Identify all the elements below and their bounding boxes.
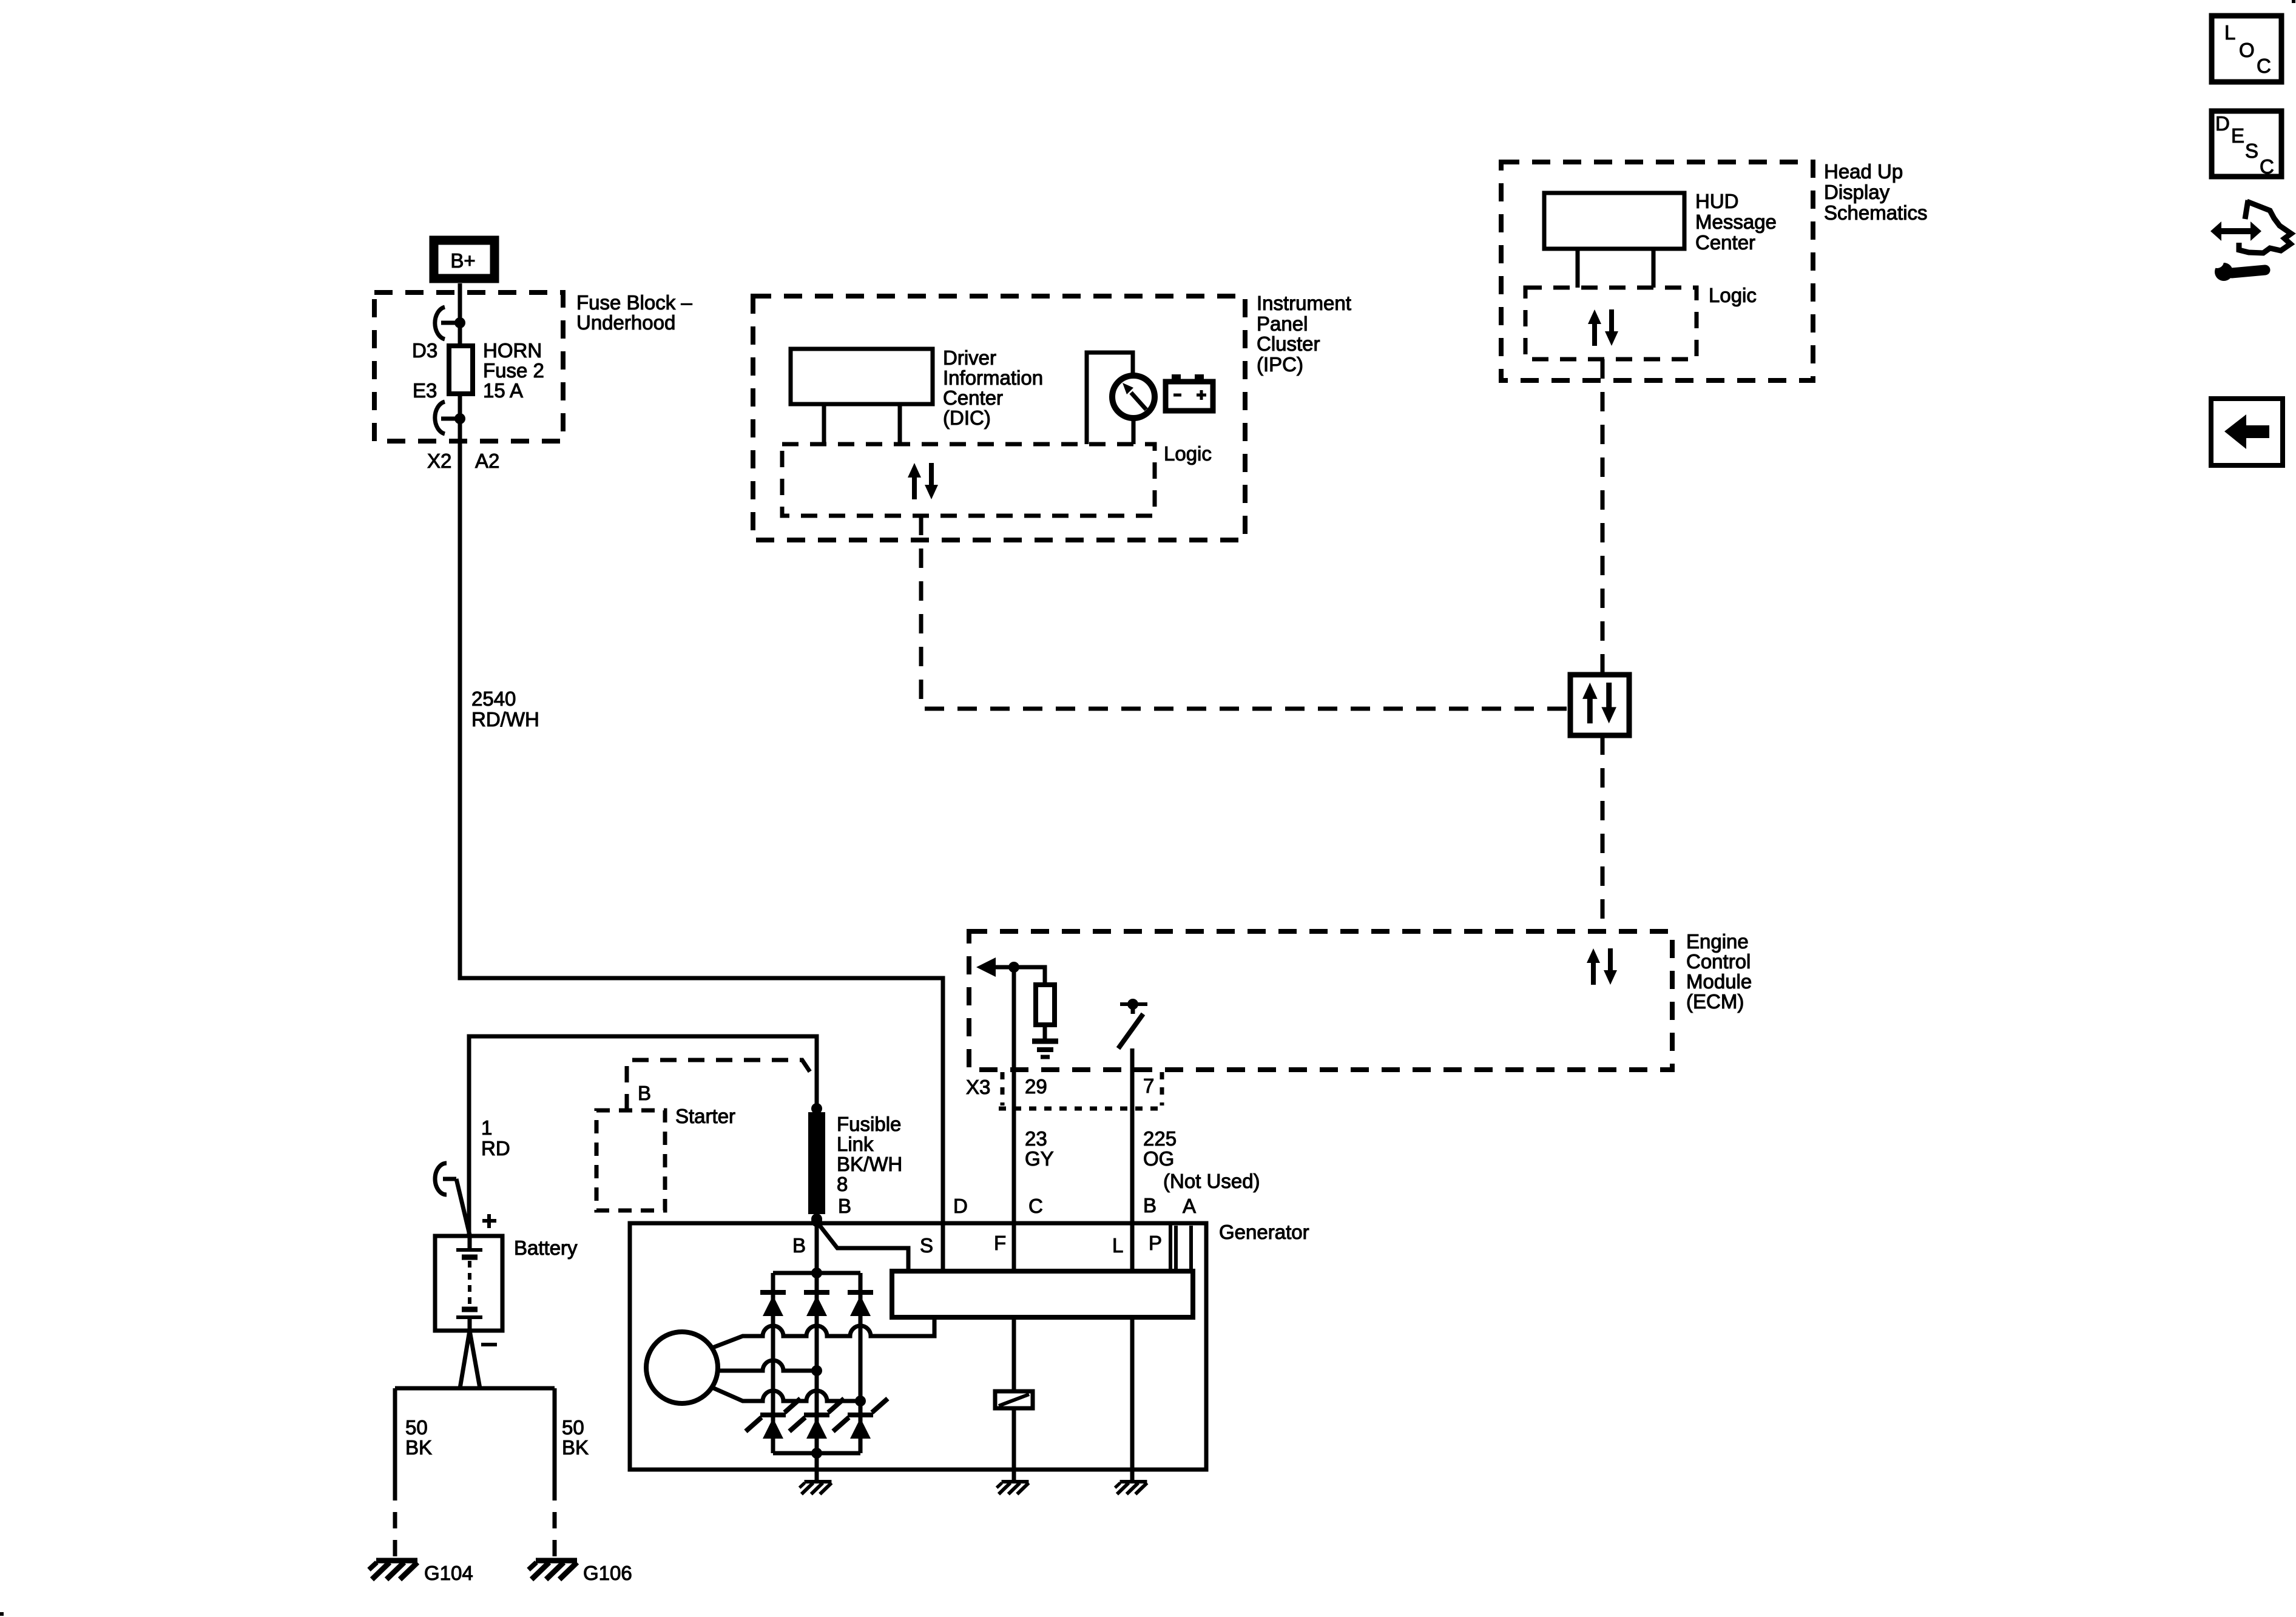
- svg-text:Cluster: Cluster: [1257, 333, 1320, 355]
- svg-text:1: 1: [481, 1116, 492, 1139]
- svg-text:D: D: [2215, 112, 2230, 135]
- starter dashed box: [596, 1110, 665, 1210]
- wire F pin to regulator: [1012, 1223, 1016, 1271]
- svg-text:A: A: [1183, 1195, 1196, 1217]
- ground G106: [528, 1561, 577, 1579]
- svg-text:C: C: [2257, 55, 2271, 77]
- svg-text:Information: Information: [943, 366, 1043, 389]
- wire F below regulator: [1012, 1317, 1016, 1391]
- rectifier top bus: [773, 1271, 860, 1275]
- svg-text:D3: D3: [412, 339, 437, 362]
- terminal E3 connector: [435, 402, 456, 434]
- ground generator field: [997, 1482, 1029, 1494]
- svg-text:B: B: [838, 1195, 851, 1217]
- HUD message center box: [1544, 193, 1684, 249]
- diode positive 1: [760, 1292, 786, 1316]
- driver information center DIC: [791, 349, 933, 404]
- wire 2540 RD/WH fuse to generator S: [460, 394, 943, 1223]
- terminal D3 connector: [435, 307, 456, 339]
- phase wire 1: [771, 1273, 775, 1453]
- zener diode 1: [746, 1399, 800, 1439]
- svg-text:Logic: Logic: [1709, 284, 1757, 306]
- svg-text:(DIC): (DIC): [943, 407, 991, 429]
- fuse block dashed box: [374, 292, 563, 441]
- wire bridge to case ground: [815, 1453, 819, 1482]
- wire ECM internal: [994, 967, 1045, 985]
- dashed serial data wire splice to ECM: [1601, 735, 1605, 931]
- icon back arrow box: [2211, 399, 2283, 465]
- svg-text:L: L: [2224, 21, 2235, 44]
- node pin 29 junction: [1008, 962, 1019, 973]
- ground G104: [369, 1561, 417, 1579]
- svg-text:B: B: [1143, 1194, 1156, 1217]
- stator winding top phase: [711, 1317, 934, 1348]
- svg-text:Fuse 2: Fuse 2: [483, 359, 544, 382]
- resistor pull-down: [1036, 985, 1055, 1025]
- node fuse bottom junction: [454, 413, 465, 424]
- voltmeter gauge wire: [1087, 353, 1133, 444]
- svg-text:B: B: [638, 1082, 651, 1104]
- wire 50 BK right: [553, 1388, 557, 1484]
- svg-text:P: P: [1149, 1232, 1162, 1254]
- svg-text:Driver: Driver: [943, 346, 996, 369]
- svg-text:Fuse Block –: Fuse Block –: [576, 291, 692, 314]
- svg-text:Module: Module: [1686, 970, 1752, 993]
- generator box: [630, 1223, 1206, 1470]
- pin cell divider P left: [1169, 1223, 1172, 1271]
- zener diode 2: [789, 1399, 844, 1439]
- wire B+ to fuse: [458, 283, 462, 346]
- phase wire 3: [859, 1273, 863, 1453]
- node bottom phase junction: [855, 1396, 866, 1406]
- svg-text:23: 23: [1025, 1127, 1047, 1150]
- svg-text:BK: BK: [405, 1436, 432, 1459]
- svg-text:GY: GY: [1025, 1147, 1054, 1170]
- wire gauge to logic: [1132, 418, 1136, 444]
- node top bus junction: [811, 1268, 822, 1278]
- svg-text:8: 8: [837, 1173, 848, 1195]
- page artifact dot top right: [2292, 0, 2295, 3]
- wire L below regulator: [1130, 1317, 1135, 1482]
- svg-text:D: D: [953, 1195, 968, 1217]
- wire 225 OG ECM to generator L: [1130, 1048, 1135, 1223]
- battery feed B+ terminal: [434, 240, 495, 279]
- svg-text:Message: Message: [1695, 211, 1777, 233]
- node fusible link bottom: [811, 1214, 822, 1224]
- ground ECM internal: [1032, 1041, 1058, 1057]
- svg-text:G104: G104: [424, 1562, 473, 1584]
- battery telltale icon: [1166, 374, 1213, 411]
- svg-text:50: 50: [562, 1416, 584, 1439]
- switch L-terminal control: [1118, 1004, 1147, 1048]
- wire B pin into bridge: [815, 1223, 819, 1453]
- svg-text:(Not Used): (Not Used): [1163, 1170, 1260, 1192]
- node switch contact: [1127, 999, 1138, 1010]
- wire DIC leg left: [822, 404, 826, 444]
- stator winding bottom phase: [711, 1387, 860, 1401]
- svg-text:Underhood: Underhood: [576, 311, 675, 334]
- serial data arrows splice box: [1582, 683, 1616, 723]
- svg-text:Logic: Logic: [1164, 442, 1212, 465]
- svg-text:S: S: [920, 1234, 933, 1257]
- page artifact dot: [0, 1612, 4, 1616]
- IPC logic dashed box: [782, 444, 1155, 516]
- pin cell divider A right: [1189, 1226, 1193, 1271]
- svg-text:X3: X3: [966, 1076, 990, 1098]
- svg-text:Display: Display: [1824, 181, 1890, 203]
- svg-text:50: 50: [405, 1416, 428, 1439]
- svg-text:Center: Center: [943, 387, 1003, 409]
- node fusible link top: [811, 1103, 822, 1114]
- voltmeter gauge: [1112, 376, 1155, 418]
- wire 50 BK left: [393, 1388, 397, 1484]
- svg-text:RD: RD: [481, 1137, 510, 1160]
- svg-text:HORN: HORN: [483, 339, 542, 362]
- svg-text:E3: E3: [413, 379, 437, 402]
- svg-text:BK/WH: BK/WH: [837, 1153, 902, 1175]
- svg-text:29: 29: [1025, 1075, 1047, 1098]
- HUD dashed box: [1501, 162, 1813, 380]
- svg-text:C: C: [2260, 155, 2274, 178]
- svg-text:Control: Control: [1686, 950, 1751, 973]
- svg-text:2540: 2540: [471, 687, 516, 710]
- wire 23 GY ECM to generator F: [1012, 967, 1016, 1223]
- stator winding middle phase: [718, 1360, 817, 1371]
- svg-text:15 A: 15 A: [483, 379, 523, 402]
- svg-text:Battery: Battery: [514, 1237, 578, 1259]
- node generator B pin: [811, 1216, 822, 1227]
- serial data splice box: [1570, 675, 1629, 735]
- diode positive 3: [848, 1292, 873, 1316]
- svg-text:B+: B+: [450, 249, 475, 272]
- node bottom bus junction: [811, 1448, 822, 1459]
- wire S pin to regulator: [941, 1223, 945, 1271]
- svg-text:Head Up: Head Up: [1824, 160, 1903, 183]
- battery plus label: [482, 1214, 496, 1228]
- svg-text:F: F: [994, 1232, 1006, 1254]
- svg-text:225: 225: [1143, 1127, 1177, 1150]
- serial data arrows ECM: [1587, 948, 1617, 985]
- svg-text:7: 7: [1143, 1075, 1154, 1097]
- svg-text:Generator: Generator: [1219, 1221, 1309, 1243]
- diode positive 2: [804, 1292, 829, 1316]
- ground generator bridge: [800, 1482, 832, 1494]
- svg-text:Center: Center: [1695, 231, 1755, 254]
- battery positive inline connector: [435, 1163, 470, 1235]
- svg-text:OG: OG: [1143, 1147, 1174, 1170]
- svg-text:Link: Link: [837, 1133, 874, 1155]
- icon connector end view with wrench: [2209, 200, 2291, 281]
- svg-text:Panel: Panel: [1257, 312, 1308, 335]
- fusible link BK/WH 8: [808, 1112, 825, 1214]
- field relay: [995, 1391, 1033, 1408]
- dashed serial data wire IPC to splice box: [921, 516, 1570, 709]
- node middle phase junction: [811, 1365, 822, 1376]
- fuse HORN Fuse 2 15A: [449, 346, 473, 394]
- svg-text:Engine: Engine: [1686, 930, 1749, 953]
- wire L pin to regulator: [1130, 1223, 1135, 1271]
- svg-text:Starter: Starter: [675, 1105, 735, 1127]
- node fuse top junction: [454, 317, 465, 328]
- svg-text:(ECM): (ECM): [1686, 990, 1744, 1013]
- rotor field circle: [646, 1332, 718, 1403]
- connector X3 dotted box: [999, 1072, 1166, 1109]
- wire HUD leg left: [1576, 249, 1580, 288]
- dashed serial data wire HUD down: [1601, 359, 1605, 675]
- serial data arrows IPC: [908, 463, 938, 499]
- wire 1 RD battery positive: [469, 1036, 817, 1236]
- battery minus label: [481, 1343, 497, 1346]
- ground generator L: [1115, 1482, 1147, 1494]
- svg-text:BK: BK: [562, 1436, 589, 1459]
- ground bus wire: [395, 1386, 555, 1391]
- ECM internal output arrow: [976, 957, 996, 977]
- pin cell divider A left: [1174, 1226, 1178, 1271]
- svg-text:E: E: [2231, 124, 2244, 147]
- wire HUD leg right: [1652, 249, 1656, 288]
- svg-text:B: B: [792, 1234, 806, 1257]
- dashed wire starter B to fusible link: [627, 1060, 815, 1110]
- svg-text:O: O: [2239, 39, 2255, 61]
- wire B pin jog to regulator: [818, 1223, 908, 1271]
- svg-text:RD/WH: RD/WH: [471, 708, 539, 731]
- svg-text:G106: G106: [583, 1562, 632, 1584]
- svg-text:C: C: [1028, 1195, 1043, 1217]
- svg-text:L: L: [1112, 1234, 1123, 1257]
- serial data arrows HUD: [1588, 309, 1618, 346]
- svg-text:Schematics: Schematics: [1824, 201, 1928, 224]
- ECM dashed box: [969, 931, 1672, 1070]
- icon LOC box: [2212, 16, 2281, 82]
- rectifier bottom bus: [773, 1451, 860, 1456]
- svg-text:Fusible: Fusible: [837, 1113, 901, 1135]
- svg-text:X2: X2: [427, 450, 451, 472]
- icon DESC box: [2212, 111, 2281, 178]
- wire DIC leg right: [898, 404, 902, 444]
- voltage regulator bar: [892, 1271, 1193, 1317]
- IPC dashed box: [753, 296, 1245, 540]
- HUD logic dashed box: [1525, 288, 1697, 359]
- battery negative splice: [460, 1331, 480, 1388]
- wire resistor to ground: [1043, 1025, 1047, 1039]
- svg-text:(IPC): (IPC): [1257, 353, 1303, 376]
- svg-text:S: S: [2245, 140, 2258, 162]
- svg-text:HUD: HUD: [1695, 190, 1739, 212]
- battery: [435, 1236, 502, 1331]
- wire relay to case ground: [1012, 1408, 1016, 1482]
- svg-text:A2: A2: [475, 450, 499, 472]
- zener diode 3: [833, 1399, 888, 1439]
- svg-text:Instrument: Instrument: [1257, 292, 1351, 314]
